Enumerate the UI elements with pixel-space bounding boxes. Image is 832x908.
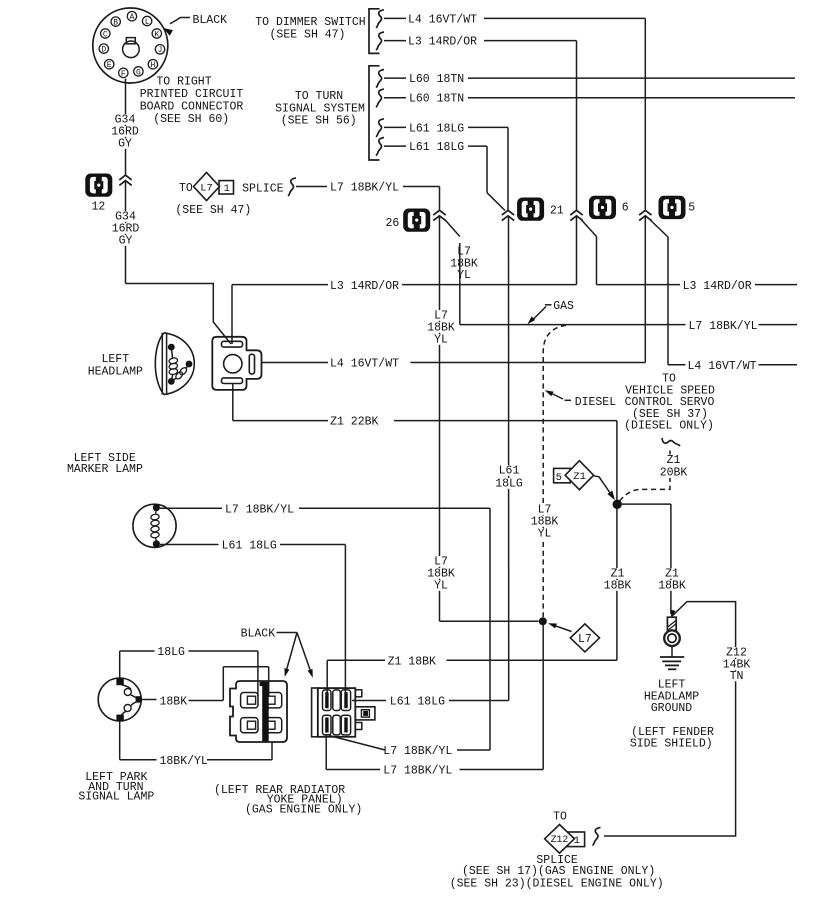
splice reference symbol 5-diamond Z1 with arrow bbox=[554, 461, 615, 501]
label TO TURN SIGNAL SYSTEM (SEE SH 56) bbox=[275, 90, 365, 128]
branch of L4 at grommet 5 jogging right to speed control servo bbox=[650, 220, 797, 365]
svg-text:TO RIGHT: TO RIGHT bbox=[156, 76, 211, 89]
label (LEFT REAR RADIATOR YOKE PANEL) (GAS ENGINE ONLY) bbox=[214, 784, 362, 817]
svg-text:(SEE SH 56): (SEE SH 56) bbox=[281, 115, 357, 128]
svg-text:D: D bbox=[101, 46, 106, 55]
label G34 16RD GY (upper) bbox=[110, 114, 140, 151]
curl on wire L61 18LG (second) bbox=[376, 138, 384, 156]
wire G34 continues down to L3 junction, right, into headlamp connector bbox=[126, 182, 232, 345]
svg-text:L60 18TN: L60 18TN bbox=[409, 73, 464, 86]
svg-text:HEADLAMP: HEADLAMP bbox=[88, 365, 143, 378]
svg-text:DIESEL: DIESEL bbox=[575, 396, 617, 409]
yoke panel connector (right) bbox=[312, 688, 375, 737]
label GAS with arrow bbox=[527, 300, 574, 324]
svg-text:GAS: GAS bbox=[553, 300, 574, 313]
label Z1 18BK (inline on vertical) bbox=[603, 568, 633, 593]
svg-text:BLACK: BLACK bbox=[241, 628, 276, 641]
grommet 5 bbox=[659, 196, 686, 219]
svg-text:L7: L7 bbox=[578, 633, 592, 646]
grommet 12 bbox=[85, 174, 112, 197]
svg-text:L7 18BK/YL: L7 18BK/YL bbox=[383, 745, 452, 758]
label L7 18BK YL (jog at grommet 26) bbox=[450, 246, 478, 283]
svg-text:18BK: 18BK bbox=[658, 580, 686, 593]
curl on wire L60 18TN (first) bbox=[376, 70, 384, 88]
wire L7 18BK/YL from marker lamp bbox=[160, 508, 490, 750]
svg-text:SPLICE: SPLICE bbox=[242, 183, 284, 196]
svg-text:21: 21 bbox=[550, 205, 564, 218]
wire L60 18TN (first) bbox=[384, 77, 795, 79]
label L7 18BK YL (inline upper) bbox=[426, 310, 456, 347]
svg-text:YL: YL bbox=[434, 580, 448, 593]
svg-text:G: G bbox=[136, 68, 141, 77]
wire L61 18LG (first) to grommet 21 bbox=[384, 127, 508, 210]
svg-text:SIGNAL LAMP: SIGNAL LAMP bbox=[78, 791, 154, 804]
left side marker lamp (bulb symbol) bbox=[133, 504, 176, 548]
label DIESEL with arrow bbox=[545, 390, 616, 409]
label Z1 18BK (ground branch) bbox=[657, 568, 687, 593]
svg-text:YL: YL bbox=[457, 269, 471, 282]
svg-text:L7 18BK/YL: L7 18BK/YL bbox=[689, 320, 758, 333]
wire L4 16VT/WT from dimmer switch bbox=[384, 18, 645, 210]
svg-text:L60 18TN: L60 18TN bbox=[409, 93, 464, 106]
wire L7 18BK/YL from splice to grommet 26 bbox=[296, 187, 440, 212]
svg-text:Z1: Z1 bbox=[573, 471, 586, 483]
curl on dashed servo wire bbox=[662, 438, 680, 446]
wire L61 18LG (second), jogs into grommet 21 bbox=[384, 146, 505, 210]
grommet 21 bbox=[517, 198, 544, 221]
curl symbol on splice wire bbox=[288, 178, 296, 196]
wire L7 18BK/YL lower from yoke connector to junction bbox=[326, 625, 543, 770]
svg-text:TO: TO bbox=[553, 811, 567, 824]
wire L4 continues below grommet 5, turns left to headlamp bbox=[262, 217, 646, 363]
svg-text:L4 16VT/WT: L4 16VT/WT bbox=[688, 360, 757, 373]
svg-text:L4 16VT/WT: L4 16VT/WT bbox=[408, 13, 477, 26]
svg-text:TN: TN bbox=[730, 670, 744, 683]
dashed wire Z1 20BK to vehicle speed control servo (diesel only) bbox=[620, 447, 671, 501]
svg-text:BLACK: BLACK bbox=[193, 14, 228, 27]
jog branch of L7 at grommet 26 (to gas line) bbox=[446, 221, 460, 325]
svg-text:(DIESEL ONLY): (DIESEL ONLY) bbox=[624, 420, 714, 433]
yoke panel connector (left, gas engine) bbox=[230, 681, 287, 742]
wire G34 16RD GY from circular connector down bbox=[125, 79, 127, 176]
grommet 6 bbox=[589, 196, 616, 219]
wire L61 18LG from marker lamp bbox=[160, 545, 345, 695]
svg-text:PRINTED CIRCUIT: PRINTED CIRCUIT bbox=[140, 88, 244, 101]
grommet 26 bbox=[403, 209, 430, 232]
splice symbol diamond L7 with box 1 bbox=[194, 172, 234, 200]
svg-text:BOARD CONNECTOR: BOARD CONNECTOR bbox=[140, 101, 244, 114]
svg-text:6: 6 bbox=[622, 202, 629, 215]
label LEFT SIDE MARKER LAMP bbox=[67, 452, 143, 476]
label (LEFT FENDER SIDE SHIELD) bbox=[630, 726, 714, 751]
junction dot (splice L7, gas/diesel) bbox=[539, 617, 547, 625]
svg-text:K: K bbox=[154, 30, 159, 39]
label SPLICE (SEE SH 47) bbox=[175, 183, 283, 218]
svg-text:26: 26 bbox=[386, 217, 400, 230]
svg-text:L3 14RD/OR: L3 14RD/OR bbox=[330, 280, 399, 293]
break symbol on G34 wire at grommet 12 bbox=[119, 175, 131, 180]
label TO VEHICLE SPEED CONTROL SERVO (SEE SH 37) (DIESEL ONLY) bbox=[624, 373, 715, 433]
svg-text:L61 18LG: L61 18LG bbox=[222, 540, 277, 553]
left park and turn signal lamp (bulb symbol) bbox=[98, 678, 141, 721]
svg-text:(SEE SH 23)(DIESEL ENGINE ONLY: (SEE SH 23)(DIESEL ENGINE ONLY) bbox=[450, 878, 664, 891]
svg-text:YL: YL bbox=[538, 528, 552, 541]
left headlamp (bulb symbol) bbox=[155, 333, 194, 395]
svg-text:5: 5 bbox=[688, 202, 695, 215]
svg-text:18LG: 18LG bbox=[157, 646, 185, 659]
label LEFT PARK AND TURN SIGNAL LAMP bbox=[78, 771, 154, 804]
svg-text:(SEE SH 17)(GAS ENGINE ONLY): (SEE SH 17)(GAS ENGINE ONLY) bbox=[462, 865, 655, 878]
break symbol on L7 wire at grommet 26 bbox=[433, 210, 445, 215]
label L7 18BK YL (inline lower) bbox=[426, 556, 456, 593]
svg-text:F: F bbox=[121, 70, 126, 79]
svg-text:B: B bbox=[113, 19, 118, 28]
svg-text:GROUND: GROUND bbox=[651, 702, 693, 715]
dashed wire L7 18BK YL diesel route bbox=[543, 325, 566, 617]
wire L61 18LG from yoke connector right bbox=[352, 700, 509, 702]
svg-text:J: J bbox=[158, 46, 163, 55]
svg-text:L7 18BK/YL: L7 18BK/YL bbox=[330, 182, 399, 195]
ring terminal and eyelet (left headlamp ground) bbox=[664, 610, 680, 646]
label LEFT HEADLAMP GROUND bbox=[644, 679, 699, 716]
svg-text:TO TURN: TO TURN bbox=[295, 90, 343, 103]
arrow from BLACK label to connector bbox=[163, 18, 190, 36]
wire L60 18TN (second) bbox=[384, 97, 795, 99]
splice symbol diamond Z12 with box 1 bbox=[545, 825, 585, 854]
svg-text:(SEE SH 47): (SEE SH 47) bbox=[175, 204, 251, 217]
bracket (dimmer switch wires) bbox=[369, 9, 380, 54]
svg-text:L61 18LG: L61 18LG bbox=[390, 696, 445, 709]
wire L3 continues below grommet 6, turns left to headlamp feed bbox=[232, 217, 577, 345]
svg-text:18BK: 18BK bbox=[604, 580, 632, 593]
label: TO RIGHT PRINTED CIRCUIT BOARD CONNECTOR (SEE SH 60) bbox=[140, 76, 244, 127]
wire Z1 18BK right branch to headlamp ground bbox=[617, 504, 671, 614]
wire 18LG from park lamp bbox=[120, 651, 258, 696]
wire L3 14RD/OR from dimmer switch bbox=[384, 41, 577, 211]
svg-text:C: C bbox=[103, 30, 108, 39]
svg-text:20BK: 20BK bbox=[660, 467, 688, 480]
svg-text:SIDE SHIELD): SIDE SHIELD) bbox=[630, 738, 713, 751]
label Z12 14BK TN bbox=[722, 647, 752, 684]
junction dot (splice Z1) bbox=[613, 500, 622, 509]
wire Z1 22BK from headlamp connector bottom bbox=[233, 384, 617, 501]
bracket (turn signal wires) bbox=[369, 66, 380, 160]
wire 18BK/YL from park lamp bbox=[120, 721, 272, 759]
wire Z1 18BK from junction down-left to yoke panel connector bbox=[327, 504, 617, 694]
label Z1 20BK bbox=[659, 454, 689, 480]
break symbol on L61 wire at grommet 21 bbox=[502, 210, 514, 215]
wire L7 18BK/YL gas line to right bbox=[460, 324, 797, 326]
svg-text:18BK: 18BK bbox=[160, 696, 188, 709]
svg-text:Z1 18BK: Z1 18BK bbox=[388, 655, 436, 668]
wire 18BK from park lamp bbox=[141, 667, 269, 701]
svg-text:L4 16VT/WT: L4 16VT/WT bbox=[330, 358, 399, 371]
break symbol on L4 wire at grommet 5 bbox=[639, 210, 651, 215]
svg-text:L61 18LG: L61 18LG bbox=[409, 122, 464, 135]
svg-text:(SEE SH 60): (SEE SH 60) bbox=[153, 113, 229, 126]
svg-text:LEFT: LEFT bbox=[101, 353, 129, 366]
label TO DIMMER SWITCH (SEE SH 47) bbox=[255, 16, 365, 42]
svg-text:(GAS ENGINE ONLY): (GAS ENGINE ONLY) bbox=[245, 803, 362, 816]
svg-text:GY: GY bbox=[118, 138, 132, 151]
svg-text:1: 1 bbox=[224, 183, 230, 195]
connector: right printed circuit board connector (circular, 11 pins) bbox=[93, 8, 168, 83]
wire Z12 14BK TN from ground terminal to splice Z12 bbox=[604, 602, 736, 836]
wire L61 continues below grommet 21 bbox=[508, 217, 510, 701]
curl on Z12 splice wire bbox=[592, 827, 600, 845]
svg-text:L61 18LG: L61 18LG bbox=[409, 141, 464, 154]
svg-text:12: 12 bbox=[92, 201, 106, 214]
svg-text:MARKER LAMP: MARKER LAMP bbox=[67, 463, 143, 476]
svg-text:L: L bbox=[145, 18, 150, 27]
svg-text:A: A bbox=[129, 13, 134, 22]
svg-text:Z12: Z12 bbox=[551, 834, 569, 845]
svg-text:5: 5 bbox=[556, 472, 562, 484]
label LEFT HEADLAMP bbox=[88, 353, 143, 378]
svg-text:GY: GY bbox=[119, 235, 133, 248]
svg-text:YL: YL bbox=[434, 334, 448, 347]
svg-text:L3 14RD/OR: L3 14RD/OR bbox=[683, 280, 752, 293]
break symbol on L3 wire at grommet 6 bbox=[570, 210, 582, 215]
svg-text:L7 18BK/YL: L7 18BK/YL bbox=[383, 765, 452, 778]
svg-text:(SEE SH 47): (SEE SH 47) bbox=[270, 29, 346, 42]
svg-text:TO: TO bbox=[179, 182, 193, 195]
svg-text:H: H bbox=[150, 61, 155, 70]
headlamp connector body bbox=[212, 337, 261, 390]
ground symbol bbox=[660, 646, 684, 669]
wire L7 18BK/YL upper from yoke connector bbox=[329, 736, 490, 751]
label L7 18BK YL (on dashed diesel wire) bbox=[530, 504, 560, 541]
label L61 18LG (inline on vertical) bbox=[494, 465, 524, 491]
curl on wire L3 14RD/OR bbox=[376, 32, 384, 50]
svg-text:TO DIMMER SWITCH: TO DIMMER SWITCH bbox=[255, 16, 365, 29]
svg-text:1: 1 bbox=[574, 835, 580, 847]
branch of L3 at grommet 6 jogging right bbox=[582, 220, 798, 285]
svg-text:18LG: 18LG bbox=[495, 478, 523, 491]
label G34 16RD GY (lower) bbox=[111, 211, 141, 248]
curl on wire L61 18LG (first) bbox=[376, 119, 384, 137]
svg-text:L3 14RD/OR: L3 14RD/OR bbox=[408, 36, 477, 49]
wire L7 18BK YL main vertical below grommet 26 to junction bbox=[440, 217, 539, 622]
curl on wire L4 16VT/WT bbox=[376, 10, 384, 28]
svg-text:L61: L61 bbox=[499, 465, 520, 478]
svg-text:E: E bbox=[107, 61, 112, 70]
label SPLICE (SEE SH 17/23) bbox=[450, 854, 664, 890]
svg-text:L7: L7 bbox=[200, 182, 213, 194]
curl on wire L60 18TN (second) bbox=[376, 89, 384, 107]
svg-text:Z1 22BK: Z1 22BK bbox=[330, 416, 378, 429]
svg-text:L7 18BK/YL: L7 18BK/YL bbox=[225, 503, 294, 516]
label BLACK (yoke panel connectors) with two arrows bbox=[241, 628, 313, 678]
svg-text:Z1: Z1 bbox=[667, 454, 681, 467]
svg-text:18BK/YL: 18BK/YL bbox=[160, 755, 208, 768]
splice reference diamond L7 with arrow bbox=[548, 623, 600, 652]
